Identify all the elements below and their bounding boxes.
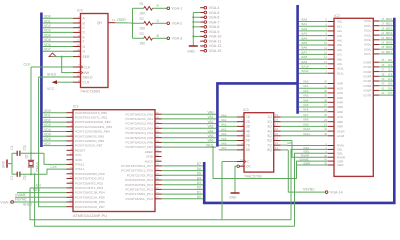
svg-text:22p: 22p — [23, 175, 27, 181]
svg-text:3D: 3D — [246, 125, 251, 129]
svg-text:INH: INH — [84, 71, 90, 75]
svg-text:PCINT18/TCK_PC2: PCINT18/TCK_PC2 — [125, 188, 153, 192]
svg-text:PCINT16/SCL_PC0: PCINT16/SCL_PC0 — [126, 197, 154, 201]
svg-text:G: G — [83, 45, 86, 49]
svg-text:14: 14 — [76, 48, 80, 52]
svg-text:7D: 7D — [246, 143, 251, 147]
resistor R3 390 — [133, 32, 167, 46]
svg-text:VA1: VA1 — [221, 118, 227, 122]
svg-text:VGA-9: VGA-9 — [209, 30, 220, 34]
pin VGA-3 — [167, 37, 182, 41]
wire BA5 from bus to IC2 — [299, 41, 328, 45]
svg-text:390: 390 — [140, 42, 146, 46]
wire HSYNC from VGA-13 to IC1 — [14, 198, 67, 202]
svg-text:VGA-12: VGA-12 — [209, 44, 222, 48]
svg-text:F: F — [83, 40, 85, 44]
svg-text:A6R: A6R — [337, 110, 344, 114]
ground GND (IC3) — [229, 193, 240, 200]
svg-text:A8L: A8L — [337, 57, 343, 61]
svg-text:VD5: VD5 — [44, 133, 51, 137]
wire VA5 from bus to IC3 — [219, 137, 237, 141]
wire VD5 to IC1 — [43, 133, 67, 137]
svg-text:PCINT22/TOSC1_PC6: PCINT22/TOSC1_PC6 — [121, 169, 153, 173]
svg-text:A9R: A9R — [337, 125, 344, 129]
svg-text:390: 390 — [140, 27, 146, 31]
svg-text:A11R: A11R — [337, 134, 345, 138]
svg-text:I/O3R: I/O3R — [363, 75, 372, 79]
wire VA7 from IC3 to IC2 — [281, 113, 328, 117]
bus BD/D (right data bus) — [204, 18, 394, 203]
pin VGA-4 — [200, 6, 219, 10]
svg-text:VGA-7: VGA-7 — [209, 20, 220, 24]
wire vertical joining R1 R2 R3 — [132, 8, 134, 38]
wire VA1 from IC1 to VA bus — [162, 115, 217, 119]
wire VA2 from bus to IC2 — [299, 89, 328, 93]
svg-text:VA4: VA4 — [221, 132, 227, 136]
svg-text:D5: D5 — [388, 82, 392, 86]
svg-text:BA4: BA4 — [302, 36, 308, 40]
svg-text:1Q: 1Q — [267, 115, 272, 119]
wire VA6 from bus to IC2 — [299, 108, 328, 112]
svg-text:A0L: A0L — [337, 20, 343, 24]
svg-text:PCINT7/ADC7_PA7: PCINT7/ADC7_PA7 — [126, 145, 154, 149]
wire VA9 from IC3 to IC2 — [281, 122, 328, 126]
pin VGA-10 — [200, 35, 221, 39]
latch IC3 74AC573N — [237, 113, 281, 172]
svg-text:16: 16 — [275, 127, 279, 131]
wire VD2 to IC1 — [43, 118, 67, 122]
svg-text:8D: 8D — [246, 148, 251, 152]
svg-text:A9L: A9L — [337, 62, 343, 66]
svg-text:PCINT24/RXD0_PD0: PCINT24/RXD0_PD0 — [75, 172, 105, 176]
svg-text:4D: 4D — [246, 129, 251, 133]
svg-text:PCINT12/OC0B/SS_PB4: PCINT12/OC0B/SS_PB4 — [75, 130, 110, 134]
svg-text:12: 12 — [76, 43, 80, 47]
supply VCC tick on SER net — [49, 53, 56, 57]
wire crystal left rail — [11, 153, 13, 174]
pin VGA-11 — [200, 39, 221, 43]
svg-text:A4L: A4L — [337, 39, 343, 43]
svg-text:BA7: BA7 — [302, 50, 308, 54]
svg-text:C2: C2 — [10, 175, 14, 179]
svg-text:2Q: 2Q — [267, 120, 272, 124]
wire BD5 from IC2 to bus — [379, 41, 393, 45]
svg-text:I/O1L: I/O1L — [364, 24, 372, 28]
svg-text:VGA-15: VGA-15 — [209, 49, 222, 53]
pin VGA-2 — [167, 22, 182, 26]
svg-text:VD1: VD1 — [44, 19, 51, 23]
wire SHLD vertical from IC4 to IC1 — [23, 77, 67, 207]
wire ground rail for VGA connector — [192, 12, 194, 43]
wire EN to IC1 — [30, 183, 67, 188]
wire D2 from IC2 to bus — [379, 68, 393, 72]
svg-text:PCINT2/ADC2_PA2: PCINT2/ADC2_PA2 — [126, 122, 154, 126]
svg-text:VCC: VCC — [75, 153, 82, 157]
wire VA11 from IC3 to IC2 — [281, 132, 328, 136]
wire OC to ground — [235, 166, 237, 192]
svg-text:A1L: A1L — [337, 24, 343, 28]
svg-text:PCINT3/ADC3_PA3: PCINT3/ADC3_PA3 — [126, 126, 154, 130]
svg-text:VA10: VA10 — [303, 127, 310, 131]
svg-text:VD3: VD3 — [44, 123, 51, 127]
svg-text:BD4: BD4 — [386, 36, 392, 40]
svg-text:VA0: VA0 — [303, 80, 309, 84]
junction VGA-6 — [192, 16, 194, 18]
svg-text:BD2: BD2 — [386, 26, 392, 30]
wire OEL from bottom rail — [295, 150, 329, 227]
wire VSYNC from IC3 8Q — [281, 150, 325, 192]
junction on PA7 wire — [212, 146, 214, 148]
wire BA7 from bus to IC2 — [299, 50, 328, 54]
svg-text:VD6: VD6 — [44, 137, 51, 141]
svg-text:OC: OC — [246, 164, 251, 168]
wire BA8 from bus to IC2 — [299, 55, 328, 59]
wire BA1 from bus to IC2 — [299, 22, 328, 26]
svg-text:VA6: VA6 — [221, 142, 227, 146]
svg-text:PCINT15/SCK_PB7: PCINT15/SCK_PB7 — [75, 144, 103, 148]
svg-text:D4: D4 — [388, 77, 392, 81]
pin VGA-5 — [200, 11, 219, 15]
svg-text:VD2: VD2 — [44, 24, 51, 28]
svg-text:GND: GND — [229, 196, 237, 200]
svg-text:BA11: BA11 — [302, 69, 309, 73]
wire RES to IC1 — [17, 188, 67, 192]
svg-text:I/O4L: I/O4L — [364, 38, 372, 42]
svg-text:PCINT0/ADC0_PA0: PCINT0/ADC0_PA0 — [126, 112, 154, 116]
svg-text:D7: D7 — [388, 91, 392, 95]
svg-text:14: 14 — [275, 137, 279, 141]
wire VA4 from bus to IC3 — [219, 132, 237, 136]
crystal Q1 20MHz — [25, 153, 40, 174]
svg-text:IC3: IC3 — [243, 108, 249, 112]
wire VA6 from bus to IC3 — [219, 142, 237, 146]
wire VA2 from IC1 to VA bus — [162, 120, 217, 124]
svg-text:VA5: VA5 — [208, 134, 214, 138]
capacitor C1 22p — [10, 145, 44, 156]
svg-text:D7: D7 — [197, 162, 201, 166]
svg-text:GND: GND — [187, 49, 195, 53]
svg-text:PCINT14/MISO_PB6: PCINT14/MISO_PB6 — [75, 139, 104, 143]
svg-text:BA3: BA3 — [302, 32, 308, 36]
svg-text:G: G — [157, 19, 160, 23]
ground GND (crystal) — [2, 160, 13, 169]
wire D1 from IC1 to data bus — [162, 190, 203, 194]
wire VD4 to IC1 — [43, 128, 67, 132]
svg-text:4Q: 4Q — [267, 129, 272, 133]
svg-text:VD7: VD7 — [44, 48, 51, 52]
svg-text:I/O7R: I/O7R — [363, 93, 372, 97]
svg-text:PCINT1/ADC1_PA1: PCINT1/ADC1_PA1 — [126, 117, 154, 121]
wire VD3 to IC4 — [43, 29, 73, 33]
svg-text:I/O3L: I/O3L — [364, 33, 372, 37]
pin VGA-9 — [200, 30, 219, 34]
wire BD7 from IC2 to bus — [379, 50, 393, 54]
svg-text:VGA-11: VGA-11 — [209, 39, 222, 43]
wire BA11 from bus to IC2 — [299, 69, 328, 73]
wire VSER from IC4 QH to resistors — [112, 18, 133, 23]
wire XTAL1 jog — [47, 165, 67, 174]
wire OER — [222, 161, 328, 219]
wire BA10 from bus to IC2 — [299, 65, 328, 69]
wire VGA-8 to ground rail — [193, 26, 200, 28]
svg-text:A7L: A7L — [337, 53, 343, 57]
svg-text:VD0: VD0 — [44, 109, 51, 113]
svg-text:PCINT23/TOSC2_PC7: PCINT23/TOSC2_PC7 — [121, 164, 153, 168]
svg-text:BA8: BA8 — [302, 55, 308, 59]
svg-text:I/O2R: I/O2R — [363, 70, 372, 74]
svg-text:BD5: BD5 — [386, 41, 392, 45]
svg-text:VA2: VA2 — [221, 123, 227, 127]
svg-text:/GAME: /GAME — [15, 193, 27, 197]
wire BD4 from IC2 to bus — [379, 36, 393, 40]
wire VGA-6 to ground rail — [193, 16, 200, 18]
wire VA7 from bus to IC3 — [219, 146, 237, 150]
shift register IC4 74HCT166N — [73, 14, 115, 94]
svg-text:IC2: IC2 — [334, 14, 340, 18]
svg-text:7Q: 7Q — [267, 143, 272, 147]
svg-text:VD1: VD1 — [44, 114, 51, 118]
svg-text:R2: R2 — [140, 17, 144, 21]
junction VGA-10 — [192, 35, 194, 37]
ground GND (VGA) — [187, 46, 198, 53]
svg-text:C1: C1 — [10, 145, 14, 149]
wire VD4 to IC4 — [43, 33, 73, 37]
svg-text:AREF: AREF — [145, 150, 153, 154]
svg-text:VSER: VSER — [117, 18, 127, 22]
svg-text:XTAL1: XTAL1 — [75, 167, 85, 171]
svg-text:I/O5R: I/O5R — [363, 84, 372, 88]
wire VD5 to IC4 — [43, 38, 73, 42]
svg-text:XTAL2: XTAL2 — [75, 163, 85, 167]
svg-text:A2L: A2L — [337, 29, 343, 33]
junction SER/INH — [61, 56, 63, 58]
svg-text:VGA-5: VGA-5 — [209, 11, 220, 15]
wire SER to INH — [62, 57, 73, 73]
pin VGA-8 — [200, 25, 219, 29]
svg-text:VA3: VA3 — [221, 127, 227, 131]
svg-text:D6: D6 — [388, 86, 392, 90]
wire VA2 from bus to IC3 — [219, 123, 237, 127]
svg-text:VGA-14: VGA-14 — [330, 190, 343, 194]
svg-text:GB: GB — [287, 141, 291, 145]
svg-text:IC1: IC1 — [73, 104, 79, 108]
wire SHLD to IC4 — [39, 72, 73, 77]
svg-text:I/O7L: I/O7L — [364, 52, 372, 56]
wire VA6 from IC1 to VA bus — [162, 139, 217, 143]
wire VA11 from IC1 to VA bus — [162, 143, 217, 147]
svg-text:VGA-1: VGA-1 — [172, 7, 183, 11]
svg-text:VA6: VA6 — [208, 139, 214, 143]
svg-text:A2R: A2R — [337, 91, 344, 95]
svg-text:VD7: VD7 — [44, 142, 51, 146]
svg-text:VA8: VA8 — [303, 118, 309, 122]
svg-text:VGA-13: VGA-13 — [0, 200, 13, 204]
svg-text:PCINT20/TDO_PC4: PCINT20/TDO_PC4 — [125, 178, 153, 182]
svg-text:SHLD: SHLD — [47, 72, 57, 76]
svg-text:BA1: BA1 — [302, 22, 308, 26]
wire VD3 to IC1 — [43, 123, 67, 127]
wire D3 from IC2 to bus — [379, 72, 393, 76]
svg-text:PCINT8/XCK0/T0_PB0: PCINT8/XCK0/T0_PB0 — [75, 111, 107, 115]
svg-text:PCINT27/INT1_PD3: PCINT27/INT1_PD3 — [75, 186, 103, 190]
svg-text:A6L: A6L — [337, 48, 343, 52]
svg-text:A0R: A0R — [337, 82, 344, 86]
junction VGA-8 — [192, 26, 194, 28]
wire VD6 to IC4 — [43, 43, 73, 47]
svg-text:OER: OER — [337, 163, 344, 167]
svg-text:VD4: VD4 — [44, 33, 51, 37]
svg-text:VGA-6: VGA-6 — [209, 16, 220, 20]
svg-text:PCINT17/SDA_PC1: PCINT17/SDA_PC1 — [125, 192, 153, 196]
svg-text:A10L: A10L — [337, 67, 344, 71]
svg-text:D4: D4 — [197, 176, 201, 180]
svg-text:390: 390 — [140, 12, 146, 16]
svg-text:R1: R1 — [140, 2, 144, 6]
svg-text:15: 15 — [76, 74, 80, 78]
wire VA3 from IC1 to VA bus — [162, 125, 217, 129]
svg-text:PCINT28/OC1B_PD4: PCINT28/OC1B_PD4 — [75, 191, 105, 195]
svg-text:PCINT31/OC2A_PD7: PCINT31/OC2A_PD7 — [75, 205, 105, 209]
wire VGA-7 to ground rail — [193, 21, 200, 23]
wire VA0 from bus to IC2 — [299, 80, 328, 84]
junction rail2 at crystal — [34, 173, 36, 175]
junction at R2 — [132, 22, 134, 24]
pin VGA-15 — [200, 49, 221, 53]
svg-text:PCINT25/TXD0_PD1: PCINT25/TXD0_PD1 — [75, 177, 105, 181]
svg-text:BA6: BA6 — [302, 46, 308, 50]
pin VGA-6 — [200, 16, 219, 20]
svg-text:A3R: A3R — [337, 96, 344, 100]
supply VCC arrow on CLR — [47, 80, 73, 91]
dual-port RAM IC2 — [328, 18, 379, 176]
wire D0 from IC1 to data bus — [162, 195, 203, 199]
wire bottom rail 2 — [35, 174, 295, 226]
wire VA3 from bus to IC2 — [299, 94, 328, 98]
svg-text:D0: D0 — [197, 195, 201, 199]
wire BD6 from IC2 to bus — [379, 45, 393, 49]
svg-text:VA4: VA4 — [303, 98, 309, 102]
wire bottom rail 1 — [30, 188, 291, 220]
svg-text:CLK: CLK — [24, 63, 31, 67]
svg-text:D0: D0 — [388, 58, 392, 62]
svg-text:VA4: VA4 — [208, 129, 214, 133]
wire from IC3 6Q to R/WR — [281, 141, 328, 158]
svg-text:PCINT19/TMS_PC3: PCINT19/TMS_PC3 — [125, 183, 153, 187]
pin VGA-1 — [167, 7, 182, 11]
wire VA10 from IC3 to IC2 — [281, 127, 328, 131]
svg-text:PCINT10/INT2/AIN0_PB2: PCINT10/INT2/AIN0_PB2 — [75, 120, 111, 124]
svg-text:VD0: VD0 — [44, 15, 51, 19]
svg-text:VA7: VA7 — [221, 146, 227, 150]
svg-text:R3: R3 — [140, 32, 144, 36]
wire BD2 from IC2 to bus — [379, 26, 393, 30]
svg-text:AVCC: AVCC — [145, 159, 154, 163]
wire to ground symbol — [192, 44, 194, 46]
wire CEL from bottom rail — [291, 146, 328, 220]
svg-text:D6: D6 — [197, 167, 201, 171]
svg-text:D2: D2 — [197, 186, 201, 190]
wire VA5 from bus to IC2 — [299, 103, 328, 107]
svg-text:BA2: BA2 — [302, 27, 308, 31]
svg-text:I/O4R: I/O4R — [363, 79, 372, 83]
svg-text:BD1: BD1 — [386, 22, 392, 26]
wire D4 from IC1 to data bus — [162, 176, 203, 180]
wire BA6 from bus to IC2 — [299, 46, 328, 50]
svg-text:VD5: VD5 — [44, 38, 51, 42]
svg-text:2D: 2D — [246, 120, 251, 124]
svg-text:VGA-4: VGA-4 — [209, 6, 220, 10]
svg-text:PCINT30/OC2B_PD6: PCINT30/OC2B_PD6 — [75, 200, 105, 204]
bus BA (IC2 left bus) — [296, 5, 299, 114]
wire D2 from IC1 to data bus — [162, 186, 203, 190]
wire D6 from IC2 to bus — [379, 86, 393, 90]
svg-text:CLR: CLR — [83, 81, 90, 85]
wire VGA-10 to ground rail — [193, 35, 200, 37]
svg-text:VD6: VD6 — [44, 43, 51, 47]
wire VA0 from IC1 to VA bus — [162, 111, 217, 115]
svg-text:I/O2L: I/O2L — [364, 29, 372, 33]
svg-text:VGA-8: VGA-8 — [209, 25, 220, 29]
pin VGA-14 — [325, 190, 342, 194]
svg-text:VA6: VA6 — [303, 108, 309, 112]
svg-text:PCINT26/INT0_PD2: PCINT26/INT0_PD2 — [75, 181, 103, 185]
svg-text:ATMEGA1284P-PU: ATMEGA1284P-PU — [73, 213, 107, 218]
svg-text:I/O5L: I/O5L — [364, 43, 372, 47]
wire SER net — [53, 56, 74, 58]
svg-text:18: 18 — [275, 118, 279, 122]
wire VA8 from IC3 to IC2 — [281, 118, 328, 122]
wire D7 from IC1 to data bus — [162, 162, 203, 166]
wire VD7 to IC1 — [43, 142, 67, 146]
svg-text:GND: GND — [75, 158, 83, 162]
wire D6 from IC1 to data bus — [162, 167, 203, 171]
svg-text:VD4: VD4 — [44, 128, 51, 132]
wire XTAL2 jog — [44, 153, 67, 164]
svg-text:5Q: 5Q — [267, 134, 272, 138]
svg-text:11: 11 — [77, 38, 80, 42]
svg-text:VGA-10: VGA-10 — [209, 35, 222, 39]
svg-text:D1: D1 — [197, 190, 201, 194]
capacitor C2 22p — [10, 172, 47, 181]
svg-text:GND: GND — [2, 160, 6, 168]
svg-text:SER: SER — [83, 55, 91, 59]
svg-text:BD3: BD3 — [386, 31, 392, 35]
svg-text:CLK: CLK — [51, 165, 58, 169]
svg-text:A7R: A7R — [337, 115, 344, 119]
svg-text:A11L: A11L — [337, 71, 344, 75]
svg-text:I/O0L: I/O0L — [364, 19, 372, 23]
svg-text:PCINT9/CLKO/T1_PB1: PCINT9/CLKO/T1_PB1 — [75, 116, 108, 120]
svg-text:QH: QH — [97, 21, 103, 25]
wire VD1 to IC1 — [43, 114, 67, 118]
wire BD1 from IC2 to bus — [379, 22, 393, 26]
wire VA1 from bus to IC2 — [299, 84, 328, 88]
wire CLK from IC4 down to crystal — [30, 67, 32, 153]
svg-text:22p: 22p — [23, 145, 27, 151]
pin VGA-13 — [0, 200, 13, 204]
svg-text:A1R: A1R — [337, 86, 344, 90]
wire BA0 from bus to IC2 — [299, 18, 328, 22]
wire CLK to IC4 — [24, 63, 74, 68]
wire VD7 to IC4 — [43, 48, 73, 52]
svg-text:VA1: VA1 — [208, 115, 214, 119]
wire VD1 to IC4 — [43, 19, 73, 23]
microcontroller IC1 ATMEGA1284P-PU — [67, 110, 162, 212]
svg-text:VA1: VA1 — [303, 84, 309, 88]
wire D0 from IC2 to bus — [379, 58, 393, 62]
svg-text:5D: 5D — [246, 134, 251, 138]
svg-text:D3: D3 — [388, 72, 392, 76]
